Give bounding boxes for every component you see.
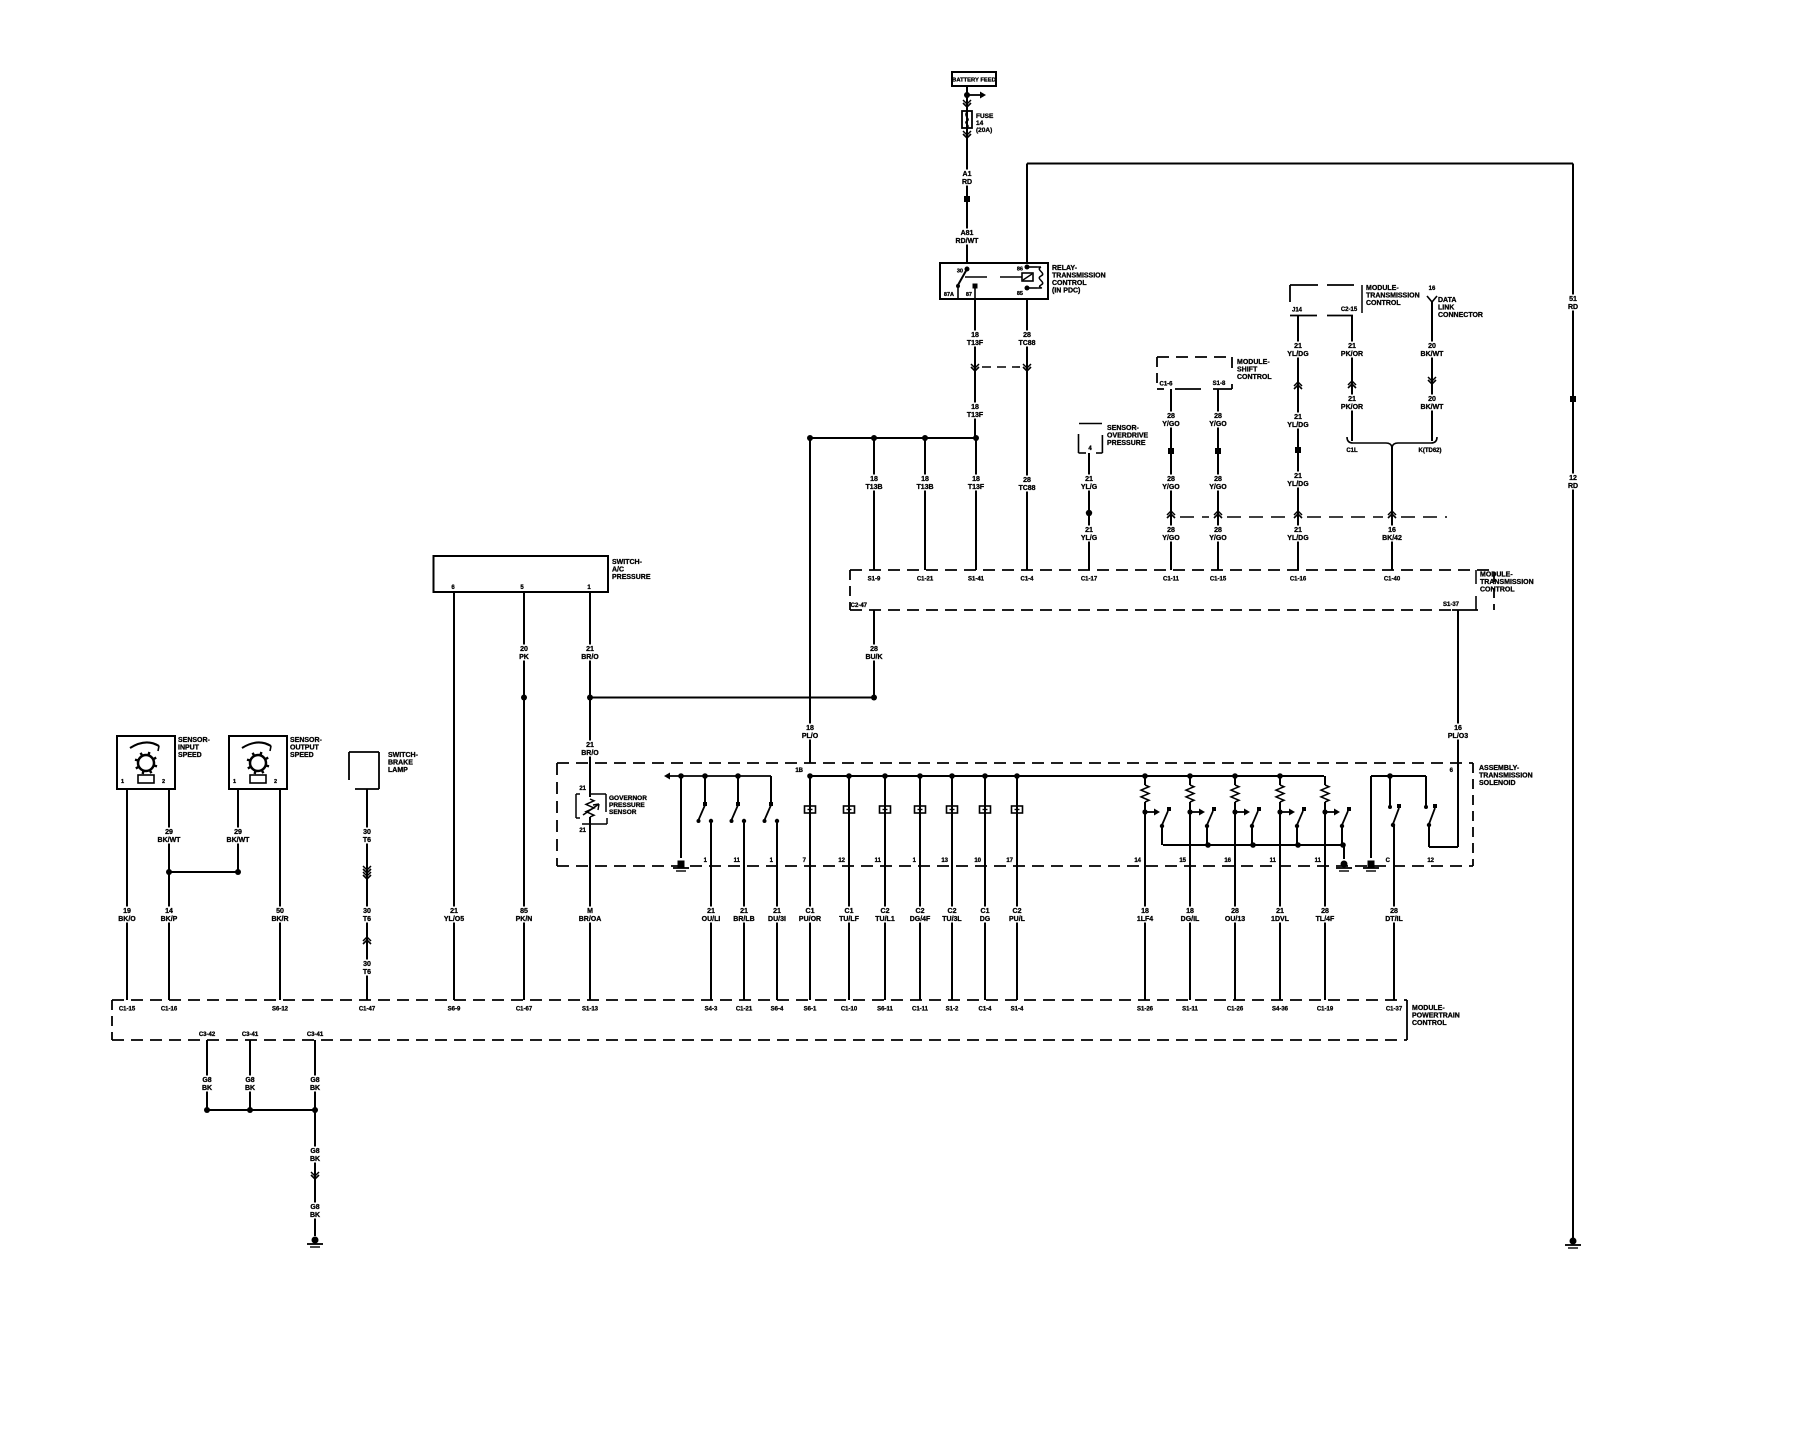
svg-text:C3-42: C3-42 bbox=[199, 1032, 216, 1038]
svg-text:PK/OR: PK/OR bbox=[1341, 351, 1363, 358]
svg-text:RELAY-: RELAY- bbox=[1052, 265, 1078, 272]
svg-text:BK: BK bbox=[310, 1085, 320, 1092]
svg-text:Y/GO: Y/GO bbox=[1209, 484, 1227, 491]
svg-text:BR/OA: BR/OA bbox=[579, 916, 602, 923]
svg-text:10: 10 bbox=[974, 858, 981, 864]
svg-text:PK/N: PK/N bbox=[516, 916, 533, 923]
svg-text:BK: BK bbox=[202, 1085, 212, 1092]
svg-text:28: 28 bbox=[1214, 476, 1222, 483]
svg-text:16: 16 bbox=[1224, 858, 1231, 864]
svg-text:DG/IL: DG/IL bbox=[1181, 916, 1200, 923]
svg-text:28: 28 bbox=[1167, 413, 1175, 420]
svg-text:1: 1 bbox=[233, 779, 236, 785]
svg-text:18: 18 bbox=[971, 404, 979, 411]
svg-text:C1-40: C1-40 bbox=[1384, 577, 1401, 583]
svg-text:CONTROL: CONTROL bbox=[1366, 300, 1401, 307]
svg-text:S1-9: S1-9 bbox=[868, 577, 881, 583]
svg-text:C1-16: C1-16 bbox=[161, 1007, 178, 1013]
svg-text:17: 17 bbox=[1006, 858, 1013, 864]
svg-text:S6-12: S6-12 bbox=[272, 1007, 289, 1013]
svg-text:S6-11: S6-11 bbox=[877, 1007, 893, 1013]
svg-text:CONTROL: CONTROL bbox=[1480, 587, 1515, 594]
svg-text:14: 14 bbox=[976, 120, 984, 127]
svg-text:14: 14 bbox=[165, 908, 173, 915]
svg-text:S1-8: S1-8 bbox=[1213, 381, 1226, 387]
svg-text:1LF4: 1LF4 bbox=[1137, 916, 1153, 923]
svg-text:21: 21 bbox=[586, 646, 594, 653]
svg-text:LAMP: LAMP bbox=[388, 767, 408, 774]
svg-text:C1-11: C1-11 bbox=[912, 1007, 929, 1013]
svg-text:DATA: DATA bbox=[1438, 297, 1456, 304]
svg-text:21: 21 bbox=[1276, 908, 1284, 915]
svg-text:PRESSURE: PRESSURE bbox=[609, 802, 645, 809]
svg-text:T13B: T13B bbox=[916, 484, 933, 491]
svg-text:C1-37: C1-37 bbox=[1386, 1007, 1403, 1013]
svg-text:TRANSMISSION: TRANSMISSION bbox=[1366, 293, 1420, 300]
svg-text:13: 13 bbox=[941, 858, 948, 864]
svg-text:S1-11: S1-11 bbox=[1182, 1007, 1198, 1013]
svg-text:T13F: T13F bbox=[968, 484, 985, 491]
svg-text:BR/LB: BR/LB bbox=[733, 916, 754, 923]
svg-text:12: 12 bbox=[838, 858, 845, 864]
svg-text:21: 21 bbox=[1348, 343, 1356, 350]
svg-text:28: 28 bbox=[1167, 476, 1175, 483]
svg-text:LINK: LINK bbox=[1438, 305, 1454, 312]
svg-text:S4-36: S4-36 bbox=[1272, 1007, 1289, 1013]
svg-text:21: 21 bbox=[1085, 527, 1093, 534]
svg-text:PL/O3: PL/O3 bbox=[1448, 733, 1468, 740]
svg-text:BK: BK bbox=[310, 1156, 320, 1163]
svg-text:CONTROL: CONTROL bbox=[1412, 1020, 1447, 1027]
svg-text:CONNECTOR: CONNECTOR bbox=[1438, 312, 1483, 319]
svg-text:86: 86 bbox=[1017, 267, 1023, 273]
svg-text:18: 18 bbox=[806, 725, 814, 732]
svg-text:S6-1: S6-1 bbox=[804, 1007, 817, 1013]
svg-text:PRESSURE: PRESSURE bbox=[1107, 440, 1146, 447]
svg-text:S4-3: S4-3 bbox=[705, 1007, 718, 1013]
svg-text:18: 18 bbox=[1186, 908, 1194, 915]
svg-text:DG/4F: DG/4F bbox=[910, 916, 931, 923]
svg-text:BK/P: BK/P bbox=[161, 916, 178, 923]
svg-text:28: 28 bbox=[1390, 908, 1398, 915]
svg-text:11: 11 bbox=[875, 858, 882, 864]
svg-text:RD/WT: RD/WT bbox=[956, 238, 980, 245]
svg-text:G8: G8 bbox=[310, 1077, 319, 1084]
svg-text:DU/3I: DU/3I bbox=[768, 916, 786, 923]
svg-text:Y/GO: Y/GO bbox=[1209, 421, 1227, 428]
svg-text:TU/L1: TU/L1 bbox=[875, 916, 895, 923]
svg-text:T13F: T13F bbox=[967, 340, 984, 347]
svg-text:YL/G: YL/G bbox=[1081, 484, 1098, 491]
svg-text:2: 2 bbox=[162, 779, 165, 785]
svg-text:MODULE-: MODULE- bbox=[1480, 572, 1513, 579]
svg-text:C1-67: C1-67 bbox=[516, 1007, 533, 1013]
svg-text:MODULE-: MODULE- bbox=[1412, 1005, 1445, 1012]
svg-text:SENSOR: SENSOR bbox=[609, 809, 637, 816]
svg-text:C2: C2 bbox=[948, 908, 957, 915]
svg-text:28: 28 bbox=[1023, 477, 1031, 484]
svg-text:19: 19 bbox=[123, 908, 131, 915]
svg-text:28: 28 bbox=[1321, 908, 1329, 915]
svg-text:C1-4: C1-4 bbox=[1020, 577, 1034, 583]
svg-text:SENSOR-: SENSOR- bbox=[1107, 425, 1140, 432]
svg-text:C3-41: C3-41 bbox=[242, 1032, 259, 1038]
svg-text:12: 12 bbox=[1569, 475, 1577, 482]
svg-text:SHIFT: SHIFT bbox=[1237, 367, 1258, 374]
svg-text:BK/42: BK/42 bbox=[1382, 535, 1402, 542]
svg-text:BATTERY FEED: BATTERY FEED bbox=[952, 78, 996, 84]
svg-text:BK: BK bbox=[245, 1085, 255, 1092]
svg-text:21: 21 bbox=[450, 908, 458, 915]
svg-text:21: 21 bbox=[586, 742, 594, 749]
svg-text:18: 18 bbox=[870, 476, 878, 483]
svg-text:M: M bbox=[587, 908, 593, 915]
svg-text:18: 18 bbox=[921, 476, 929, 483]
svg-text:28: 28 bbox=[1231, 908, 1239, 915]
svg-text:TL/4F: TL/4F bbox=[1316, 916, 1335, 923]
svg-text:Y/GO: Y/GO bbox=[1162, 535, 1180, 542]
svg-text:21: 21 bbox=[1294, 414, 1302, 421]
svg-text:BK/R: BK/R bbox=[271, 916, 288, 923]
svg-text:SPEED: SPEED bbox=[178, 752, 202, 759]
svg-text:SOLENOID: SOLENOID bbox=[1479, 780, 1516, 787]
svg-text:11: 11 bbox=[734, 858, 741, 864]
svg-text:SWITCH-: SWITCH- bbox=[612, 559, 643, 566]
svg-text:BK/WT: BK/WT bbox=[227, 837, 251, 844]
svg-text:51: 51 bbox=[1569, 296, 1577, 303]
svg-text:TRANSMISSION: TRANSMISSION bbox=[1052, 273, 1106, 280]
svg-text:28: 28 bbox=[1214, 413, 1222, 420]
svg-text:DT/IL: DT/IL bbox=[1385, 916, 1403, 923]
svg-text:RD: RD bbox=[962, 179, 972, 186]
svg-text:C: C bbox=[1386, 858, 1391, 864]
svg-text:11: 11 bbox=[1315, 858, 1322, 864]
svg-text:30: 30 bbox=[363, 829, 371, 836]
svg-text:YL/DG: YL/DG bbox=[1287, 481, 1309, 488]
svg-text:1DVL: 1DVL bbox=[1271, 916, 1290, 923]
svg-text:T6: T6 bbox=[363, 837, 371, 844]
svg-text:BU/K: BU/K bbox=[865, 654, 882, 661]
svg-text:1B: 1B bbox=[795, 768, 803, 774]
svg-text:21: 21 bbox=[1085, 476, 1093, 483]
svg-text:YL/DG: YL/DG bbox=[1287, 422, 1309, 429]
svg-text:POWERTRAIN: POWERTRAIN bbox=[1412, 1013, 1460, 1020]
svg-text:C2: C2 bbox=[1013, 908, 1022, 915]
svg-text:DG: DG bbox=[980, 916, 991, 923]
svg-text:BK/WT: BK/WT bbox=[1421, 351, 1445, 358]
svg-text:TU/3L: TU/3L bbox=[942, 916, 962, 923]
svg-text:ASSEMBLY-: ASSEMBLY- bbox=[1479, 765, 1520, 772]
svg-text:MODULE-: MODULE- bbox=[1237, 359, 1270, 366]
svg-text:PU/L: PU/L bbox=[1009, 916, 1026, 923]
svg-text:C1: C1 bbox=[845, 908, 854, 915]
svg-text:S6-9: S6-9 bbox=[448, 1007, 461, 1013]
svg-text:S1-41: S1-41 bbox=[968, 577, 985, 583]
svg-text:28: 28 bbox=[1214, 527, 1222, 534]
svg-text:G8: G8 bbox=[245, 1077, 254, 1084]
svg-text:RD: RD bbox=[1568, 304, 1578, 311]
svg-text:YL/O5: YL/O5 bbox=[444, 916, 464, 923]
svg-text:C1L: C1L bbox=[1346, 448, 1358, 454]
svg-text:28: 28 bbox=[1167, 527, 1175, 534]
svg-text:16: 16 bbox=[1388, 527, 1396, 534]
svg-text:J14: J14 bbox=[1292, 308, 1303, 314]
svg-text:SWITCH-: SWITCH- bbox=[388, 752, 419, 759]
svg-text:T6: T6 bbox=[363, 916, 371, 923]
svg-text:C1-26: C1-26 bbox=[1227, 1007, 1244, 1013]
svg-text:21: 21 bbox=[1348, 396, 1356, 403]
svg-text:C2-15: C2-15 bbox=[1341, 307, 1358, 313]
svg-text:C1-15: C1-15 bbox=[119, 1007, 136, 1013]
svg-text:BRAKE: BRAKE bbox=[388, 760, 413, 767]
svg-text:BK/WT: BK/WT bbox=[158, 837, 182, 844]
svg-text:PK/OR: PK/OR bbox=[1341, 404, 1363, 411]
svg-text:T6: T6 bbox=[363, 969, 371, 976]
svg-text:OVERDRIVE: OVERDRIVE bbox=[1107, 433, 1149, 440]
svg-text:C1-6: C1-6 bbox=[1159, 382, 1173, 388]
svg-text:50: 50 bbox=[276, 908, 284, 915]
svg-text:C1-10: C1-10 bbox=[841, 1007, 858, 1013]
svg-text:(IN PDC): (IN PDC) bbox=[1052, 288, 1080, 295]
svg-text:C1-21: C1-21 bbox=[736, 1007, 753, 1013]
svg-text:PU/OR: PU/OR bbox=[799, 916, 821, 923]
svg-text:16: 16 bbox=[1429, 286, 1436, 292]
svg-text:S1-37: S1-37 bbox=[1443, 602, 1460, 608]
svg-text:OU/LI: OU/LI bbox=[702, 916, 721, 923]
svg-text:30: 30 bbox=[957, 269, 963, 275]
svg-text:C1-47: C1-47 bbox=[359, 1007, 376, 1013]
svg-text:21: 21 bbox=[579, 828, 586, 834]
svg-text:21: 21 bbox=[707, 908, 715, 915]
svg-text:20: 20 bbox=[1428, 343, 1436, 350]
svg-text:C1-4: C1-4 bbox=[978, 1007, 992, 1013]
svg-text:21: 21 bbox=[1294, 473, 1302, 480]
svg-text:85: 85 bbox=[1017, 291, 1023, 297]
svg-text:BK/O: BK/O bbox=[118, 916, 136, 923]
svg-text:BK: BK bbox=[310, 1212, 320, 1219]
svg-text:S6-4: S6-4 bbox=[771, 1007, 784, 1013]
svg-text:S1-4: S1-4 bbox=[1011, 1007, 1024, 1013]
svg-text:CONTROL: CONTROL bbox=[1237, 374, 1272, 381]
svg-text:20: 20 bbox=[1428, 396, 1436, 403]
svg-text:30: 30 bbox=[363, 908, 371, 915]
svg-text:S1-13: S1-13 bbox=[582, 1007, 599, 1013]
svg-text:C1-17: C1-17 bbox=[1081, 577, 1098, 583]
svg-text:C1: C1 bbox=[981, 908, 990, 915]
svg-text:Y/GO: Y/GO bbox=[1209, 535, 1227, 542]
svg-text:SPEED: SPEED bbox=[290, 752, 314, 759]
svg-text:T13B: T13B bbox=[865, 484, 882, 491]
svg-text:18: 18 bbox=[1141, 908, 1149, 915]
svg-text:21: 21 bbox=[740, 908, 748, 915]
svg-text:2: 2 bbox=[274, 779, 277, 785]
svg-text:FUSE: FUSE bbox=[976, 113, 994, 120]
svg-text:15: 15 bbox=[1179, 858, 1186, 864]
svg-text:BK/WT: BK/WT bbox=[1421, 404, 1445, 411]
svg-text:SENSOR-: SENSOR- bbox=[178, 737, 211, 744]
svg-text:BR/O: BR/O bbox=[581, 750, 599, 757]
svg-text:TU/LF: TU/LF bbox=[839, 916, 860, 923]
svg-text:RD: RD bbox=[1568, 483, 1578, 490]
svg-text:GOVERNOR: GOVERNOR bbox=[609, 795, 647, 802]
svg-text:85: 85 bbox=[520, 908, 528, 915]
svg-text:16: 16 bbox=[1454, 725, 1462, 732]
svg-text:(20A): (20A) bbox=[976, 127, 992, 134]
svg-text:1: 1 bbox=[121, 779, 124, 785]
svg-text:TC88: TC88 bbox=[1018, 340, 1035, 347]
svg-text:C1-11: C1-11 bbox=[1163, 577, 1180, 583]
svg-text:G8: G8 bbox=[202, 1077, 211, 1084]
svg-text:29: 29 bbox=[165, 829, 173, 836]
svg-text:18: 18 bbox=[972, 476, 980, 483]
svg-text:29: 29 bbox=[234, 829, 242, 836]
svg-text:OUTPUT: OUTPUT bbox=[290, 745, 320, 752]
svg-text:SENSOR-: SENSOR- bbox=[290, 737, 323, 744]
svg-text:CONTROL: CONTROL bbox=[1052, 280, 1087, 287]
svg-text:BR/O: BR/O bbox=[581, 654, 599, 661]
svg-text:C2-47: C2-47 bbox=[851, 603, 868, 609]
svg-text:MODULE-: MODULE- bbox=[1366, 285, 1399, 292]
svg-text:28: 28 bbox=[870, 646, 878, 653]
svg-text:18: 18 bbox=[971, 332, 979, 339]
svg-text:T13F: T13F bbox=[967, 412, 984, 419]
svg-text:YL/DG: YL/DG bbox=[1287, 351, 1309, 358]
svg-text:C3-41: C3-41 bbox=[307, 1032, 324, 1038]
svg-text:A1: A1 bbox=[963, 171, 972, 178]
svg-text:C1-19: C1-19 bbox=[1317, 1007, 1334, 1013]
svg-text:11: 11 bbox=[1270, 858, 1277, 864]
svg-text:YL/G: YL/G bbox=[1081, 535, 1098, 542]
svg-text:G8: G8 bbox=[310, 1148, 319, 1155]
svg-text:K(TD62): K(TD62) bbox=[1418, 448, 1441, 454]
svg-text:PK: PK bbox=[519, 654, 529, 661]
svg-text:14: 14 bbox=[1134, 858, 1141, 864]
svg-text:TRANSMISSION: TRANSMISSION bbox=[1479, 773, 1533, 780]
svg-text:YL/DG: YL/DG bbox=[1287, 535, 1309, 542]
svg-text:Y/GO: Y/GO bbox=[1162, 421, 1180, 428]
svg-text:TC88: TC88 bbox=[1018, 485, 1035, 492]
svg-text:21: 21 bbox=[579, 786, 586, 792]
svg-text:12: 12 bbox=[1427, 858, 1434, 864]
svg-text:30: 30 bbox=[363, 961, 371, 968]
svg-text:C2: C2 bbox=[881, 908, 890, 915]
svg-text:PRESSURE: PRESSURE bbox=[612, 574, 651, 581]
svg-text:28: 28 bbox=[1023, 332, 1031, 339]
svg-text:S1-2: S1-2 bbox=[946, 1007, 959, 1013]
svg-text:PL/O: PL/O bbox=[802, 733, 819, 740]
svg-text:21: 21 bbox=[1294, 343, 1302, 350]
svg-text:G8: G8 bbox=[310, 1204, 319, 1211]
svg-text:INPUT: INPUT bbox=[178, 745, 200, 752]
svg-text:S1-26: S1-26 bbox=[1137, 1007, 1154, 1013]
svg-text:21: 21 bbox=[1294, 527, 1302, 534]
svg-text:OU/13: OU/13 bbox=[1225, 916, 1245, 923]
svg-text:TRANSMISSION: TRANSMISSION bbox=[1480, 579, 1534, 586]
svg-text:A/C: A/C bbox=[612, 567, 624, 574]
svg-text:20: 20 bbox=[520, 646, 528, 653]
svg-text:C1: C1 bbox=[806, 908, 815, 915]
svg-text:87: 87 bbox=[966, 292, 972, 298]
svg-text:A81: A81 bbox=[961, 230, 974, 237]
svg-text:C1-15: C1-15 bbox=[1210, 577, 1227, 583]
svg-text:21: 21 bbox=[773, 908, 781, 915]
svg-text:87A: 87A bbox=[944, 292, 954, 298]
svg-text:C2: C2 bbox=[916, 908, 925, 915]
svg-text:Y/GO: Y/GO bbox=[1162, 484, 1180, 491]
svg-text:C1-21: C1-21 bbox=[917, 577, 934, 583]
svg-text:C1-16: C1-16 bbox=[1290, 577, 1307, 583]
